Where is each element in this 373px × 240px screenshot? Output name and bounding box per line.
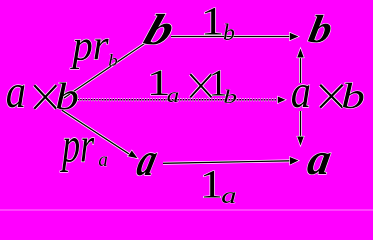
wire: projection arrow a×b to a (diagonal down) bbox=[62, 110, 138, 158]
node a×b (right): times sign bbox=[320, 85, 342, 108]
svg-text:pr: pr bbox=[60, 119, 95, 173]
node a×b (left): times sign bbox=[34, 85, 56, 109]
svg-text:a: a bbox=[221, 183, 237, 209]
svg-text:b: b bbox=[341, 76, 365, 116]
svg-text:1: 1 bbox=[201, 0, 224, 44]
svg-text:b: b bbox=[223, 87, 237, 108]
svg-text:a: a bbox=[291, 66, 311, 117]
wire: projection arrow a×b to b (diagonal up) bbox=[64, 42, 148, 99]
wire: vertical arrow a×b up to b bbox=[297, 49, 304, 84]
wire: dotted product-map arrow a×b to a×b (1_a×1_b) bbox=[78, 97, 286, 104]
svg-text:b: b bbox=[55, 76, 79, 117]
wire: vertical arrow a×b down to a bbox=[297, 111, 304, 146]
svg-text:1: 1 bbox=[200, 163, 223, 207]
svg-text:a: a bbox=[6, 66, 26, 117]
svg-text:a: a bbox=[98, 150, 108, 172]
svg-text:b: b bbox=[108, 51, 118, 70]
svg-text:a: a bbox=[167, 84, 180, 108]
bottom edge light strip bbox=[0, 209, 373, 211]
label 1_a×1_b (middle): times sign bbox=[190, 74, 211, 97]
wire: identity arrow 1_b from b to b (top horizontal) bbox=[171, 33, 299, 41]
svg-text:b: b bbox=[223, 20, 235, 46]
svg-text:pr: pr bbox=[70, 22, 110, 69]
wire: identity arrow 1_a from a to a (bottom horizontal) bbox=[163, 157, 299, 165]
